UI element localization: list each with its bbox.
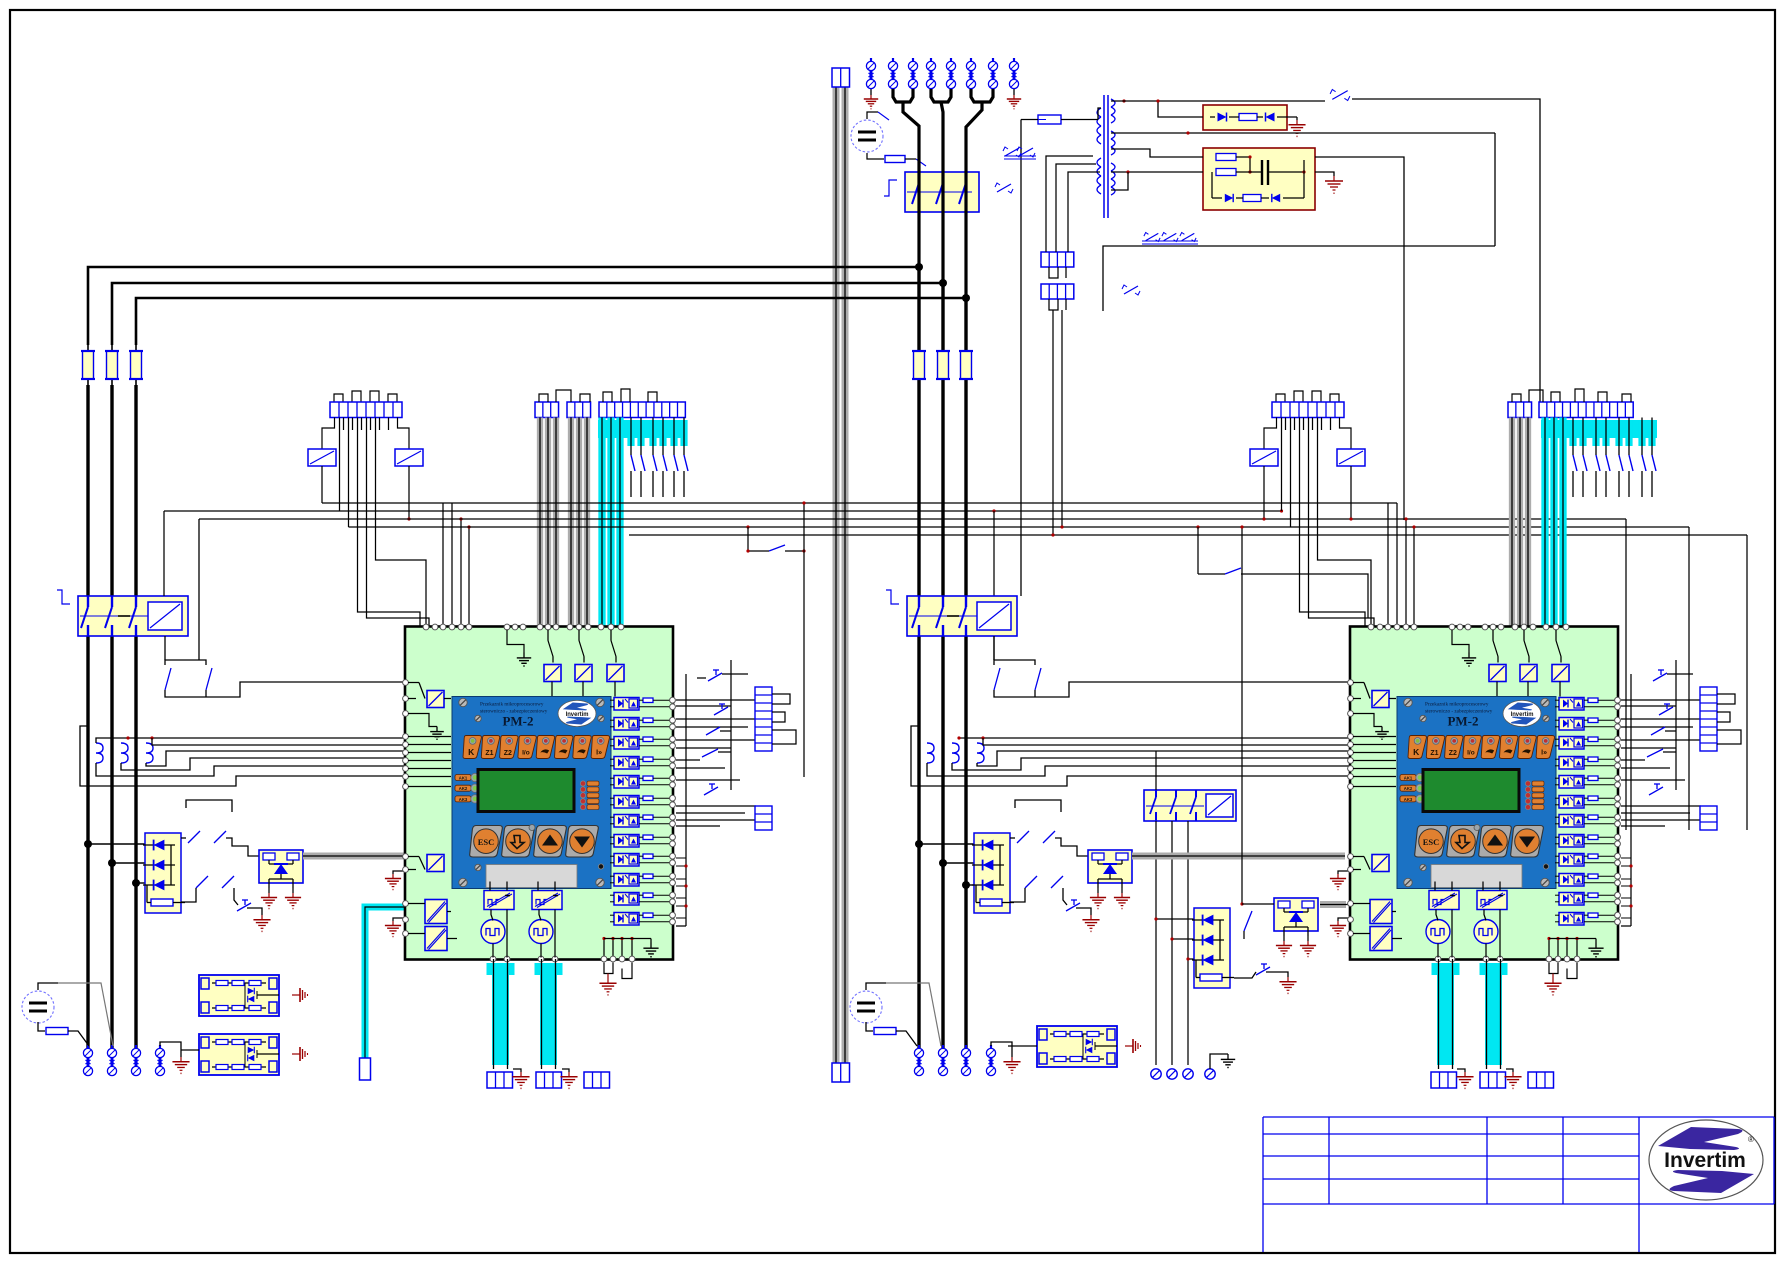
- gray link: [1320, 901, 1350, 908]
- control bus wire 5: [629, 534, 1747, 536]
- riser to opto2: [1240, 525, 1274, 905]
- terminal strip x3: [1508, 402, 1532, 418]
- opto input 2: [1559, 718, 1584, 731]
- aux feed riser right: [993, 511, 995, 660]
- current transformer: [927, 743, 934, 763]
- svg-text:PM-2: PM-2: [1447, 714, 1478, 729]
- contact: [994, 668, 1000, 690]
- surge arrester pair: [914, 1045, 923, 1076]
- aux module: [427, 691, 444, 708]
- edge terminals: [670, 912, 676, 924]
- resistor: [643, 815, 653, 820]
- ground: [430, 727, 444, 740]
- wires CT inputs: [1353, 737, 1396, 787]
- edge terminals: [1615, 775, 1621, 787]
- DC/DC converter: [484, 891, 514, 910]
- contactor K3: [1144, 790, 1236, 821]
- cable bundle cyan: [1559, 418, 1566, 628]
- svg-text:AK1: AK1: [459, 776, 468, 781]
- status LEDs: [580, 781, 599, 810]
- optocoupler module: [1088, 850, 1132, 888]
- diode block: [1192, 908, 1234, 988]
- edge earth 2: [385, 918, 405, 937]
- protective earth: [1276, 941, 1292, 957]
- ground: [1462, 653, 1476, 667]
- surge arrester pair: [946, 58, 955, 89]
- surge arrester pair: [938, 1045, 947, 1076]
- cable bundle: [1517, 418, 1523, 628]
- stack links: [676, 700, 756, 826]
- module feed: [1008, 1045, 1037, 1047]
- wire: [1076, 908, 1091, 915]
- board top terminals: [1368, 624, 1569, 630]
- phase feeder L3: [136, 298, 966, 345]
- protective earth: [285, 893, 301, 909]
- svg-text:Przekaznik mikroprocesorowy: Przekaznik mikroprocesorowy: [480, 702, 544, 708]
- edge terminals: [1615, 873, 1621, 885]
- riser contact: [1244, 911, 1252, 939]
- junction nodes: [84, 840, 92, 848]
- svg-text:Z1: Z1: [1430, 750, 1438, 757]
- wire: [1555, 817, 1616, 824]
- push button: [1649, 784, 1663, 795]
- wire: [1555, 895, 1616, 902]
- contact: [706, 727, 720, 735]
- gray link to board: [303, 853, 405, 860]
- contact: [1225, 568, 1241, 574]
- terminal stack x8: [1700, 687, 1717, 751]
- wire: [676, 925, 686, 927]
- resistor: [643, 835, 653, 840]
- cable bundle cyan: [1550, 418, 1557, 628]
- opto input 8: [614, 835, 639, 848]
- riser: [1630, 674, 1632, 926]
- svg-text:AK3: AK3: [1404, 797, 1413, 802]
- terminal strip x8: [1272, 402, 1344, 418]
- board internal top ground: [1452, 630, 1476, 667]
- wire to board: [206, 682, 405, 697]
- resistor: [1588, 835, 1598, 840]
- terminal strip x3: [535, 402, 559, 418]
- relay module: [199, 1034, 279, 1075]
- wires CT inputs: [408, 737, 451, 787]
- riser: [1675, 660, 1677, 790]
- DC source: [851, 120, 883, 152]
- interlock contact: [1017, 147, 1035, 157]
- key row: [1408, 736, 1555, 759]
- opto input 9: [614, 854, 639, 867]
- push button: [704, 784, 718, 795]
- edge terminals: [1615, 814, 1621, 826]
- wire: [408, 933, 425, 935]
- relay coil: [1337, 449, 1365, 466]
- terminal stack x3: [755, 806, 772, 830]
- surge arrester: [1183, 1069, 1193, 1079]
- opto input 8: [1559, 835, 1584, 848]
- protective earth: [172, 1057, 189, 1074]
- resistor: [643, 698, 653, 703]
- wire: [1667, 673, 1693, 675]
- svg-text:AK1: AK1: [1404, 776, 1413, 781]
- phase wire L2: [931, 89, 951, 102]
- aux module: [1552, 665, 1569, 682]
- interlock contact: [1122, 285, 1140, 295]
- diode2 out: [1234, 972, 1256, 978]
- wire: [1315, 157, 1404, 240]
- board riser group right: [1318, 418, 1416, 628]
- stub wires right: [1621, 858, 1633, 918]
- wire: [551, 682, 553, 697]
- protective earth: [1003, 1057, 1020, 1074]
- resistor: [1588, 815, 1598, 820]
- protective earth: [1007, 95, 1021, 109]
- internal ground 2: [408, 714, 444, 740]
- board left terminals: [1348, 680, 1354, 937]
- opto input 1: [614, 698, 639, 711]
- wire L3r: [964, 298, 967, 1048]
- CT group: [96, 738, 153, 763]
- current transformer: [121, 743, 128, 763]
- internal switch: [1353, 683, 1370, 699]
- contactor trip lever: [886, 590, 899, 604]
- aux module: [607, 665, 624, 682]
- riser x731: [730, 660, 732, 790]
- tap wire: [136, 882, 149, 884]
- resistor: [1588, 698, 1598, 703]
- wire: [1353, 933, 1370, 935]
- aux module: [1489, 665, 1506, 682]
- protective earth: [1504, 1072, 1521, 1089]
- surge arrester pair: [888, 58, 897, 89]
- wire: [610, 895, 671, 902]
- push button: [1659, 704, 1673, 715]
- board bottom ground cluster: [1547, 937, 1603, 958]
- earth: [1456, 1069, 1473, 1089]
- cable bundle cyan: [1541, 418, 1548, 628]
- AK indicators: [1400, 773, 1424, 803]
- indicator: [1543, 864, 1548, 869]
- isolation module: [425, 900, 447, 924]
- contact: [1025, 876, 1037, 888]
- contact: [206, 668, 212, 690]
- edge terminals: [670, 736, 676, 748]
- LCD display: [1423, 770, 1519, 812]
- diode block: [972, 833, 1014, 913]
- CT group right: [911, 726, 1350, 786]
- aux module: [544, 665, 561, 682]
- board bottom terminals: [490, 956, 635, 962]
- svg-text:Invertim: Invertim: [1511, 711, 1534, 718]
- resistor: [1588, 796, 1598, 801]
- lower contact pair: [181, 876, 238, 905]
- contactor trip lever: [57, 590, 70, 604]
- terminal strip x4: [1041, 252, 1074, 267]
- wire: [1555, 778, 1616, 785]
- wire: [610, 739, 671, 746]
- wire to board: [1035, 682, 1350, 697]
- resistor: [874, 1028, 896, 1035]
- surge arrester pair: [988, 58, 997, 89]
- interlock contact: [1144, 233, 1160, 242]
- svg-text:K: K: [468, 747, 475, 757]
- wire: [1392, 938, 1402, 940]
- resistor: [885, 156, 905, 163]
- opto input 12: [614, 913, 639, 926]
- label window: [486, 865, 577, 888]
- internal switch: [579, 630, 584, 663]
- cable bundle cyan: [607, 418, 614, 628]
- cable bundle cyan: [598, 418, 605, 628]
- edge terminals: [1615, 717, 1621, 729]
- surge arrester pair: [1009, 58, 1018, 89]
- resistor: [643, 757, 653, 762]
- front panel PM-2: [1397, 697, 1556, 889]
- wire: [447, 911, 451, 913]
- status LEDs: [1525, 781, 1544, 810]
- LCD display: [478, 770, 574, 812]
- resistor: [1588, 757, 1598, 762]
- optocoupler module: [259, 850, 303, 888]
- protective earth: [261, 893, 277, 909]
- wire: [68, 1031, 89, 1046]
- terminal stack x3: [1700, 806, 1717, 830]
- control bus wire 2: [164, 510, 1282, 512]
- cyan outputs right: [1432, 959, 1508, 1069]
- resistor: [1588, 874, 1598, 879]
- earth: [512, 1069, 529, 1089]
- surge arrester pair: [961, 1045, 970, 1076]
- wire: [1389, 698, 1396, 700]
- wire: [1555, 700, 1616, 707]
- internal switch: [408, 857, 425, 870]
- edge terminals: [670, 717, 676, 729]
- terminal strip x12: [1539, 402, 1633, 418]
- aux module: [575, 665, 592, 682]
- internal switch: [1556, 630, 1561, 663]
- controller board A2: [1350, 627, 1618, 960]
- contact: [1017, 831, 1029, 843]
- internal switch: [611, 630, 616, 663]
- edge terminals: [670, 873, 676, 885]
- button row: [470, 825, 599, 858]
- key row: [463, 736, 610, 759]
- aux riser: [164, 636, 166, 660]
- svg-text:®: ®: [1748, 1135, 1754, 1144]
- stack jumpers right: [1717, 694, 1741, 744]
- opto input 9: [1559, 854, 1584, 867]
- arrester earth link: [991, 1042, 1012, 1057]
- contact: [916, 159, 926, 166]
- protective earth: [1114, 893, 1130, 909]
- protective earth small: [292, 988, 308, 1002]
- relay coil: [308, 449, 336, 466]
- resistor: [1588, 737, 1598, 742]
- protective earth small: [1125, 1039, 1141, 1053]
- opto input 6: [1559, 796, 1584, 809]
- aux riser2: [198, 519, 200, 660]
- cable bundle: [833, 70, 840, 1063]
- aux module: [1372, 855, 1389, 872]
- K3 risers: [1156, 751, 1188, 1065]
- pilot contact 2: [1196, 525, 1368, 618]
- interlock contact: [1162, 233, 1178, 242]
- cable bundle: [1525, 418, 1531, 628]
- protective earth: [1090, 893, 1106, 909]
- wire: [1555, 915, 1616, 922]
- cyan stub contacts right: [1569, 418, 1656, 498]
- terminal strip x3: [567, 402, 591, 418]
- wires converters: [490, 882, 555, 958]
- DC/DC converter: [1429, 891, 1459, 910]
- push button: [1653, 670, 1667, 681]
- internal switch: [408, 683, 425, 699]
- tap wire: [88, 843, 145, 845]
- cable bundle: [553, 418, 559, 628]
- protective earth: [1330, 921, 1346, 937]
- bottom earth loop: [599, 963, 632, 996]
- surge arrester: [1205, 1069, 1215, 1079]
- relay module: [199, 975, 279, 1016]
- protective earth: [1325, 176, 1343, 194]
- diode block: [143, 833, 185, 913]
- push button: [1066, 900, 1080, 911]
- edge terminals: [1615, 795, 1621, 807]
- opto grounds: [1276, 936, 1316, 957]
- rect block 1: [1203, 105, 1297, 130]
- protective earth: [599, 979, 616, 996]
- svg-text:Przekaznik mikroprocesorowy: Przekaznik mikroprocesorowy: [1425, 702, 1489, 708]
- wire: [896, 1031, 917, 1046]
- relay module: [1037, 1026, 1117, 1067]
- opto input 5: [1559, 776, 1584, 789]
- svg-text:Z2: Z2: [504, 750, 512, 757]
- edge terminals: [1615, 853, 1621, 865]
- strip jumpers right: [1512, 389, 1631, 402]
- controller board A1: [405, 627, 673, 960]
- tap wire: [943, 862, 974, 864]
- protective earth: [512, 1072, 529, 1089]
- contact: [222, 876, 234, 888]
- sec wire top: [1111, 90, 1540, 403]
- riser x804: [803, 503, 805, 777]
- panel title: [1425, 702, 1493, 729]
- relay coil: [1206, 794, 1233, 817]
- below-board cyan left: [487, 959, 563, 1069]
- label window: [1431, 865, 1522, 888]
- wire: [447, 938, 457, 940]
- pulse generator: [1426, 920, 1450, 944]
- fuse cartridge: [129, 345, 143, 385]
- current transformer: [96, 743, 103, 763]
- wire: [1555, 739, 1616, 746]
- pulse generator: [529, 920, 553, 944]
- contact: [702, 749, 718, 757]
- edge terminals: [1615, 892, 1621, 904]
- strip risers: [340, 418, 430, 628]
- stack jumpers: [772, 694, 796, 744]
- phase feeder L1: [88, 267, 919, 345]
- aux module: [1372, 691, 1389, 708]
- contact: [196, 876, 208, 888]
- transformer T1: [1097, 95, 1115, 218]
- contactor K0: [905, 172, 979, 212]
- DC source: [22, 991, 54, 1023]
- aux module: [427, 855, 444, 872]
- wire: [181, 1049, 199, 1051]
- relay coil risers: [322, 466, 411, 521]
- current transformer: [977, 743, 984, 763]
- resistor: [1588, 776, 1598, 781]
- wire: [905, 158, 916, 160]
- wire: [697, 677, 706, 679]
- push button: [237, 900, 251, 911]
- svg-text:ESC: ESC: [1423, 837, 1440, 847]
- stub wires: [676, 858, 688, 918]
- surge arrester: [1167, 1069, 1177, 1079]
- resistor: [643, 913, 653, 918]
- phase feeder L2: [112, 283, 943, 345]
- isolation module: [1370, 900, 1392, 924]
- cyan cap: [598, 420, 686, 438]
- edge terminals: [670, 775, 676, 787]
- wire L2: [110, 385, 113, 1048]
- relay coil: [148, 602, 182, 630]
- wire: [610, 817, 671, 824]
- tap wire: [919, 843, 974, 845]
- resistor: [1588, 893, 1598, 898]
- opto input 12: [1559, 913, 1584, 926]
- interlock glyphs: [995, 147, 1198, 295]
- control bus wire 1: [322, 502, 1397, 504]
- Invertim logo: [558, 700, 596, 726]
- cable bundle: [545, 418, 551, 628]
- CT wiring: [80, 726, 405, 786]
- wires to relays: [1264, 418, 1351, 450]
- wire dc+2: [58, 983, 113, 1046]
- contact: [1647, 749, 1663, 757]
- stack links right: [1621, 700, 1701, 826]
- contact: [165, 668, 171, 690]
- gray link to board right: [1132, 853, 1345, 860]
- surge arrester pair: [131, 1045, 140, 1076]
- terminal strip x3: [536, 1072, 562, 1088]
- internal switch: [1524, 630, 1529, 663]
- cyan stub contacts: [627, 418, 688, 498]
- indicator: [598, 864, 603, 869]
- fuse cartridge: [81, 345, 95, 385]
- panel title: [480, 702, 548, 729]
- wire: [1158, 101, 1203, 117]
- relay coil risers right: [1262, 466, 1352, 521]
- edge terminals: [670, 892, 676, 904]
- edge terminals: [670, 756, 676, 768]
- opto input 11: [1559, 893, 1584, 906]
- edge terminals: [670, 853, 676, 865]
- wire: [610, 778, 671, 785]
- contact: [1043, 831, 1055, 843]
- cyan wire to board: [360, 907, 406, 1080]
- isolation module: [425, 927, 447, 951]
- AK indicators: [455, 773, 479, 803]
- relay output terminal group: [1276, 391, 1339, 402]
- control bus wire 3: [199, 518, 1626, 520]
- opto grounds: [261, 888, 301, 909]
- wire: [1353, 903, 1370, 905]
- button row: [1415, 825, 1544, 858]
- wire: [1403, 240, 1405, 520]
- bus top terminal: [832, 68, 850, 87]
- DC/DC converter: [532, 891, 562, 910]
